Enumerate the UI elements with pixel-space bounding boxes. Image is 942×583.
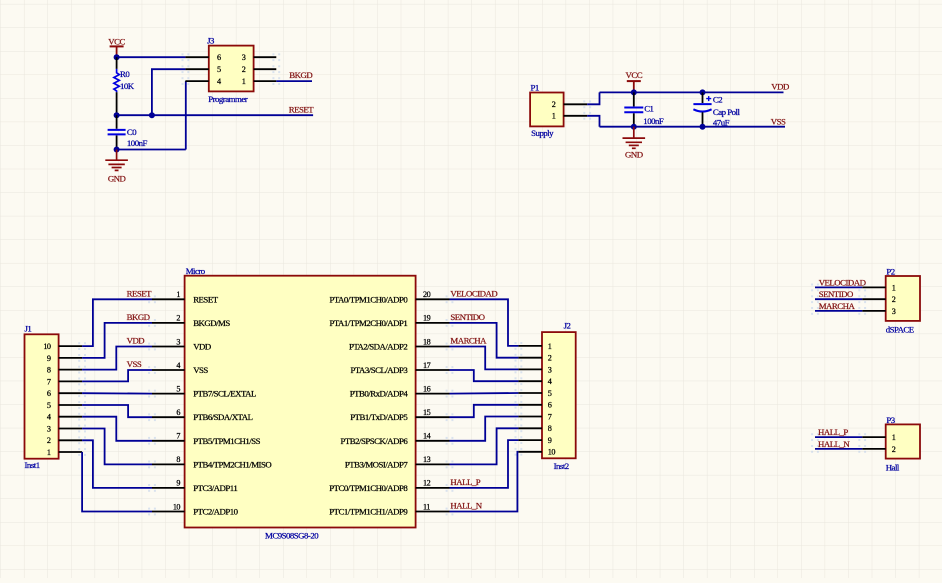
svg-text:6: 6 [47,389,51,398]
svg-text:6: 6 [176,408,180,417]
svg-text:7: 7 [47,377,51,386]
svg-text:18: 18 [423,337,431,346]
wire U1 pin13 to J2.8 [450,428,519,464]
svg-text:2: 2 [552,100,556,109]
wire VDD rail [600,91,784,93]
wire P1 pin2 to VDD rail [587,92,599,104]
svg-text:BKGD: BKGD [127,312,150,322]
svg-text:17: 17 [423,361,431,370]
svg-text:VSS: VSS [127,359,142,369]
svg-text:9: 9 [47,354,51,363]
svg-text:HALL_P: HALL_P [818,427,848,437]
U1 pin 6 PTB6/SDA/XTAL [152,416,185,418]
svg-text:VDD: VDD [193,342,211,352]
wire J3 pin5 to RESET [152,69,186,115]
svg-text:2: 2 [548,354,552,363]
svg-text:3: 3 [548,365,552,374]
wire J1.5 to U1 pin6 [82,405,152,417]
svg-text:Programmer: Programmer [208,94,248,104]
svg-text:6: 6 [548,401,552,410]
U1 pin 10 PTC2/ADP10 [152,511,185,513]
wire C0 to J3 pin4 [117,149,186,151]
wire U1 pin12 HALL_P to J2.9 [450,440,519,488]
P2 pin 2 [862,298,886,300]
svg-text:13: 13 [423,455,431,464]
U1 pin 4 VSS [152,369,185,371]
J2 pin 5 [518,392,542,394]
svg-text:SENTIDO: SENTIDO [450,312,484,322]
svg-text:19: 19 [423,314,431,323]
U1 pin 2 BKGD/MS [152,322,185,324]
J2 pin 3 [518,368,542,370]
svg-text:HALL_N: HALL_N [818,439,850,449]
svg-text:8: 8 [47,366,51,375]
svg-text:GND: GND [625,150,643,160]
wire J1.8 VDD to U1 pin3 [82,347,152,370]
svg-text:4: 4 [176,361,180,370]
wire P1 pin1 to VSS rail [587,116,599,127]
svg-text:Inst1: Inst1 [25,460,40,470]
wire J1.4 to U1 pin7 [82,417,152,441]
svg-text:RESET: RESET [127,288,153,298]
svg-text:3: 3 [47,424,51,433]
svg-text:10K: 10K [120,81,135,91]
U1 pin 15 PTB1/TxD/ADP5 [416,416,450,418]
J1 pin 5 [59,404,83,406]
wire VCC to J3 pin6 [117,56,186,58]
svg-text:VSS: VSS [771,116,786,126]
svg-text:J3: J3 [207,36,215,46]
svg-text:PTC3/ADP11: PTC3/ADP11 [193,483,237,493]
svg-text:J2: J2 [564,321,571,331]
svg-text:P1: P1 [531,83,539,93]
junction RESET/J3pin5 [149,112,155,118]
svg-text:HALL_P: HALL_P [450,477,480,487]
U1 pin 14 PTB2/SPSCK/ADP6 [416,440,450,442]
svg-text:1: 1 [47,448,51,457]
junction C2 bottom [700,124,706,130]
P1 pin 2 [564,103,588,105]
P2 pin 1 [862,286,886,288]
svg-text:VSS: VSS [193,365,208,375]
svg-text:2: 2 [242,65,246,74]
svg-text:BKGD: BKGD [289,70,312,80]
svg-text:2: 2 [47,436,51,445]
wire U1 pin14 to J2.7 [450,417,519,441]
J1 pin 10 [59,345,83,347]
svg-text:C0: C0 [127,127,137,137]
capacitor C1 [633,92,635,106]
J3 pin 4 (left) [185,80,208,82]
svg-text:PTB4/TPM2CH1/MISO: PTB4/TPM2CH1/MISO [193,459,271,469]
wire J1.1 to U1 pin10 [82,452,152,512]
svg-text:C2: C2 [713,95,722,105]
svg-text:5: 5 [548,389,552,398]
U1 pin 3 VDD [152,346,185,348]
U1 pin 12 PTC0/TPM1CH0/ADP8 [416,487,450,489]
svg-text:4: 4 [47,413,51,422]
J1 pin 3 [59,428,83,430]
svg-text:1: 1 [176,290,180,299]
svg-text:P2: P2 [886,267,894,277]
svg-text:11: 11 [423,502,430,511]
wire U1 pin11 HALL_N to J2.10 [450,452,519,512]
U1 pin 9 PTC3/ADP11 [152,487,185,489]
U1 pin 1 RESET [152,298,185,300]
wire J1.3 to U1 pin8 [82,429,152,465]
svg-text:PTC2/ADP10: PTC2/ADP10 [193,507,238,517]
svg-text:8: 8 [548,424,552,433]
svg-text:Cap Poll: Cap Poll [713,107,741,117]
J1 pin 4 [59,416,83,418]
P3 pin 1 [862,436,886,438]
P1 pin 1 [564,115,588,117]
svg-text:Inst2: Inst2 [554,461,569,471]
wire U1 pin18 MARCHA to J2.3 [450,347,519,370]
svg-text:PTB7/SCL/EXTAL: PTB7/SCL/EXTAL [193,389,256,399]
svg-text:PTB1/TxD/ADP5: PTB1/TxD/ADP5 [350,412,408,422]
wire J1.10 RESET to U1 pin1 [82,299,152,346]
svg-text:10: 10 [43,342,51,351]
J3 pin 1 (right) [254,80,277,82]
svg-text:2: 2 [892,445,896,454]
svg-text:1: 1 [892,433,896,442]
svg-text:8: 8 [176,455,180,464]
junction VCC/R0 [114,54,120,60]
J3 pin 5 (left) [185,68,208,70]
svg-text:15: 15 [423,408,431,417]
svg-text:PTC0/TPM1CH0/ADP8: PTC0/TPM1CH0/ADP8 [329,483,408,493]
svg-text:VCC: VCC [108,37,125,47]
junction C0/GND [114,147,120,153]
wire BKGD net [276,80,312,82]
U1 pin 13 PTB3/MOSI/ADP7 [416,463,450,465]
J3 pin 6 (left) [185,56,208,58]
svg-text:100nF: 100nF [643,116,664,126]
ground GND (top-left) [116,150,118,161]
U1 pin 18 PTA2/SDA/ADP2 [416,346,450,348]
wire U1 pin20 VELOCIDAD to J2.1 [450,299,519,346]
U1 pin 19 PTA1/TPM2CH0/ADP1 [416,322,450,324]
J2 pin 6 [518,404,542,406]
wire HALL_N to P3.2 [815,448,862,450]
svg-text:dSPACE: dSPACE [886,324,914,334]
wire J1.6 to U1 pin5 [82,392,152,394]
svg-text:PTA2/SDA/ADP2: PTA2/SDA/ADP2 [349,342,407,352]
svg-text:PTA0/TPM1CH0/ADP0: PTA0/TPM1CH0/ADP0 [329,294,408,304]
svg-text:MARCHA: MARCHA [450,336,487,346]
svg-text:3: 3 [176,337,180,346]
U1 pin 7 PTB5/TPM1CH1/SS [152,440,185,442]
wire J1.7 VSS to U1 pin4 [82,370,152,381]
svg-text:16: 16 [423,384,431,393]
J1 pin 6 [59,392,83,394]
wire U1 pin19 SENTIDO to J2.2 [450,323,519,358]
svg-text:PTB3/MOSI/ADP7: PTB3/MOSI/ADP7 [345,459,409,469]
svg-text:9: 9 [176,479,180,488]
U1 pin 11 PTC1/TPM1CH1/ADP9 [416,511,450,513]
U1 pin 16 PTB0/RxD/ADP4 [416,393,450,395]
svg-text:1: 1 [242,77,246,86]
svg-text:3: 3 [892,307,896,316]
capacitor C0 [116,115,118,129]
wire SENTIDO to P2.2 [815,298,862,300]
junction VCC/C1 top [631,89,637,95]
svg-text:PTB2/SPSCK/ADP6: PTB2/SPSCK/ADP6 [340,436,408,446]
wire U1 pin15 to J2.6 [450,405,519,417]
U1 pin 8 PTB4/TPM2CH1/MISO [152,463,185,465]
svg-text:47uF: 47uF [713,118,730,128]
svg-text:PTC1/TPM1CH1/ADP9: PTC1/TPM1CH1/ADP9 [329,507,408,517]
P2 pin 3 [862,310,886,312]
svg-text:BKGD/MS: BKGD/MS [193,318,230,328]
wire RESET net [117,114,314,116]
svg-text:GND: GND [108,174,126,184]
svg-text:VCC: VCC [626,70,643,80]
J1 pin 8 [59,369,83,371]
svg-text:100nF: 100nF [127,138,148,148]
wire MARCHA to P2.3 [815,310,862,312]
svg-text:3: 3 [242,53,246,62]
svg-text:10: 10 [548,448,556,457]
U1 pin 17 PTA3/SCL/ADP3 [416,369,450,371]
svg-text:J1: J1 [25,323,32,333]
svg-text:1: 1 [548,342,552,351]
svg-text:20: 20 [423,290,431,299]
svg-text:R0: R0 [120,69,130,79]
J2 pin 7 [518,416,542,418]
svg-text:PTB0/RxD/ADP4: PTB0/RxD/ADP4 [350,389,409,399]
J2 pin 10 [518,451,542,453]
svg-text:VELOCIDAD: VELOCIDAD [450,288,497,298]
ground GND (supply) [633,127,635,138]
J2 pin 9 [518,439,542,441]
wire VELOCIDAD to P2.1 [815,286,862,288]
svg-text:12: 12 [423,479,431,488]
J2 pin 1 [518,345,542,347]
svg-text:C1: C1 [644,104,653,114]
junction R0/C0/RESET [114,112,120,118]
svg-text:10: 10 [173,502,181,511]
J3 pin 3 (right) [254,56,277,58]
resistor R0 [116,57,118,69]
svg-text:Micro: Micro [186,266,206,276]
J1 pin 2 [59,439,83,441]
svg-text:VDD: VDD [771,81,789,91]
svg-text:1: 1 [552,112,556,121]
svg-text:Supply: Supply [531,128,554,138]
svg-text:7: 7 [548,412,552,421]
junction C1 bottom [631,124,637,130]
svg-text:VDD: VDD [127,336,145,346]
svg-text:MC9S08SG8-20: MC9S08SG8-20 [265,530,319,540]
J1 pin 9 [59,357,83,359]
wire U1 pin17 to J2.4 [450,370,519,381]
svg-text:PTA1/TPM2CH0/ADP1: PTA1/TPM2CH0/ADP1 [329,318,407,328]
J1 pin 7 [59,380,83,382]
svg-text:SENTIDO: SENTIDO [819,289,853,299]
J3 pin 2 (right) [254,68,277,70]
svg-text:2: 2 [176,314,180,323]
wire HALL_P to P3.1 [815,436,862,438]
svg-text:PTA3/SCL/ADP3: PTA3/SCL/ADP3 [350,365,408,375]
J1 pin 1 [59,451,83,453]
svg-text:6: 6 [217,53,221,62]
svg-text:5: 5 [47,401,51,410]
svg-text:4: 4 [217,77,221,86]
U1 pin 5 PTB7/SCL/EXTAL [152,393,185,395]
wire J1.9 BKGD to U1 pin2 [82,323,152,358]
wire U1 pin16 to J2.5 [450,392,519,395]
svg-text:5: 5 [217,65,221,74]
svg-text:RESET: RESET [289,105,315,115]
capacitor C2 polarized [702,92,704,103]
svg-text:MARCHA: MARCHA [819,301,856,311]
J2 pin 2 [518,357,542,359]
svg-text:1: 1 [892,283,896,292]
svg-text:2: 2 [892,295,896,304]
svg-text:VELOCIDAD: VELOCIDAD [819,277,866,287]
svg-text:14: 14 [423,432,431,441]
wire VSS rail [600,126,786,128]
svg-text:7: 7 [176,432,180,441]
svg-text:PTB6/SDA/XTAL: PTB6/SDA/XTAL [193,412,252,422]
svg-text:HALL_N: HALL_N [450,501,482,511]
svg-text:PTB5/TPM1CH1/SS: PTB5/TPM1CH1/SS [193,436,260,446]
svg-text:9: 9 [548,436,552,445]
svg-text:Hall: Hall [886,462,900,472]
U1 pin 20 PTA0/TPM1CH0/ADP0 [416,298,450,300]
svg-text:4: 4 [548,377,552,386]
svg-text:RESET: RESET [193,294,219,304]
wire J1.2 to U1 pin9 [82,440,152,488]
P3 pin 2 [862,448,886,450]
J2 pin 8 [518,427,542,429]
junction C2 top [700,89,706,95]
J2 pin 4 [518,380,542,382]
svg-text:5: 5 [176,384,180,393]
